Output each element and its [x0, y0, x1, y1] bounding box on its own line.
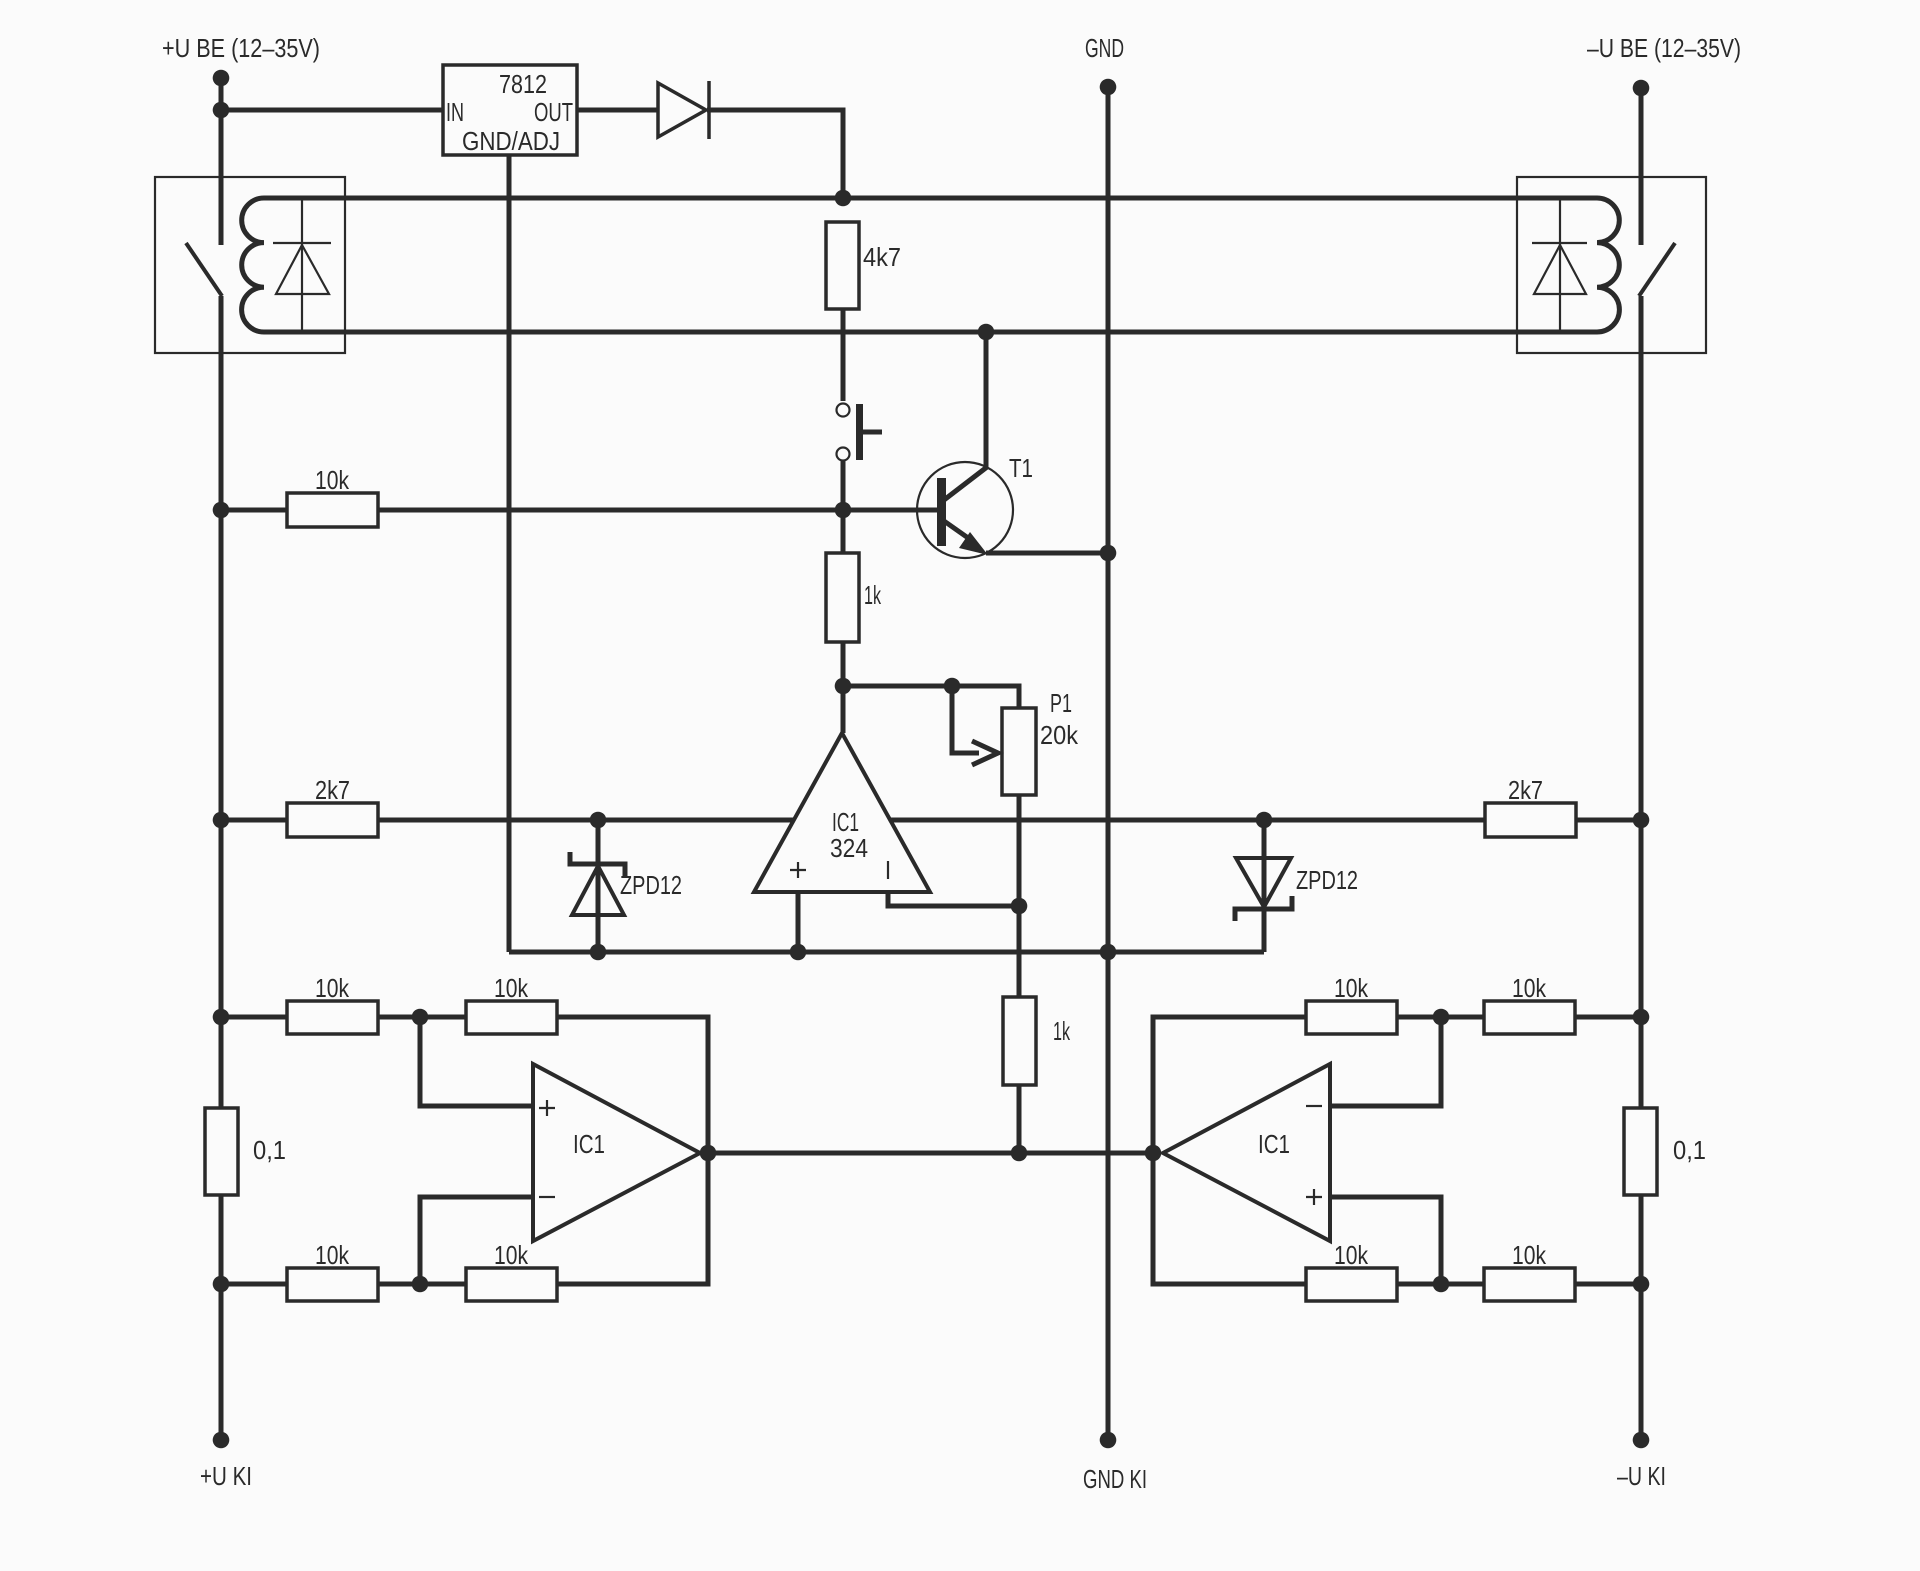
svg-text:10k: 10k — [494, 1240, 529, 1270]
op-amp U2 IC1 324 — [754, 733, 930, 892]
resistor 10k g — [1484, 1268, 1575, 1301]
wire regulator OUT — [577, 108, 658, 113]
node right rail row1 — [1633, 1009, 1650, 1026]
resistor 10k c — [287, 1268, 378, 1301]
node right opamp output — [1145, 1145, 1162, 1162]
node zener right top — [1256, 812, 1273, 829]
label 10k h — [1334, 1240, 1369, 1270]
svg-text:GND KI: GND KI — [1083, 1464, 1147, 1494]
label 10k f — [1334, 973, 1369, 1003]
wire 2k7 row across — [378, 818, 1485, 823]
svg-text:T1: T1 — [1009, 453, 1033, 483]
resistor 10k e — [1484, 1001, 1575, 1034]
node GND bus — [1100, 944, 1117, 961]
wire reference bus — [509, 950, 1264, 955]
svg-text:ZPD12: ZPD12 — [1296, 865, 1358, 895]
label 20k — [1040, 720, 1079, 750]
resistor 10k base — [287, 493, 378, 527]
wire GND vertical top — [1106, 87, 1111, 553]
label -U KI — [1617, 1461, 1666, 1491]
label 10k base — [315, 465, 350, 495]
svg-text:–U KI: –U KI — [1617, 1461, 1666, 1491]
node +U BE / IN junction — [213, 102, 230, 119]
node minus divider right — [1433, 1009, 1450, 1026]
label 2k7 right — [1508, 775, 1543, 805]
wire GND vertical bottom — [1106, 952, 1111, 1440]
node plus input bus — [790, 944, 807, 961]
label 10k b — [494, 973, 529, 1003]
svg-text:1k: 1k — [864, 580, 882, 610]
node 1k output — [1011, 1145, 1028, 1162]
wire 2k7 right to rail — [1576, 818, 1641, 823]
wire 10k d to feedback column lower — [557, 1153, 708, 1284]
label 10k a — [315, 973, 350, 1003]
capacitor 0,1 right — [1624, 1108, 1657, 1195]
node opamp apex — [835, 678, 852, 695]
wire left rail 2k7-row1 — [219, 820, 224, 1108]
node A (4k7 top) — [835, 190, 852, 207]
svg-text:IN: IN — [446, 97, 464, 127]
wire 10k f to feedback column right — [1153, 1017, 1306, 1153]
wire right rail below relay — [1639, 296, 1644, 1108]
transistor T1 — [917, 462, 1013, 558]
capacitor 0,1 left — [205, 1108, 238, 1195]
label ZPD12 right — [1296, 865, 1358, 895]
svg-text:0,1: 0,1 — [1673, 1135, 1706, 1165]
wire 1k lower top — [1017, 906, 1022, 997]
wire 4k7 bottom to button — [841, 309, 846, 401]
svg-text:–U BE (12–35V): –U BE (12–35V) — [1587, 33, 1741, 63]
label 1k lower — [1053, 1016, 1071, 1046]
label 2k7 left — [315, 775, 350, 805]
terminal GND KI — [1100, 1432, 1117, 1449]
wire GND vertical middle — [1106, 553, 1111, 952]
svg-text:10k: 10k — [1334, 1240, 1369, 1270]
wire left rail below relay — [219, 296, 224, 510]
node right rail row2 — [1633, 1276, 1650, 1293]
svg-text:GND: GND — [1085, 33, 1124, 63]
wire -U BE rail to relay contact — [1639, 88, 1644, 245]
label 0,1 right — [1673, 1135, 1706, 1165]
wire plus input right opamp — [1330, 1197, 1441, 1284]
label GND KI — [1083, 1464, 1147, 1494]
wire to P1 top — [952, 686, 1019, 708]
wire 10k a to b — [378, 1015, 466, 1020]
wire minus input to pot bottom — [888, 892, 1019, 906]
node plus divider left — [412, 1009, 429, 1026]
resistor 2k7 right — [1485, 803, 1576, 837]
label 10k c — [315, 1240, 350, 1270]
resistor 10k b — [466, 1001, 557, 1034]
node wiper — [944, 678, 961, 695]
potentiometer P1 — [1002, 708, 1036, 795]
label +U KI — [200, 1461, 252, 1491]
svg-text:10k: 10k — [315, 1240, 350, 1270]
node left rail 10k — [213, 502, 230, 519]
terminal -U KI — [1633, 1432, 1650, 1449]
resistor 2k7 left — [287, 803, 378, 837]
svg-text:10k: 10k — [315, 973, 350, 1003]
svg-text:20k: 20k — [1040, 720, 1079, 750]
resistor 4k7 — [826, 222, 859, 309]
regulator U1 7812 — [443, 65, 577, 156]
wire 10k b to feedback column — [557, 1017, 708, 1153]
wire 1k lower bottom — [1017, 1085, 1022, 1153]
node collector top — [978, 324, 995, 341]
node zener left bottom — [590, 944, 607, 961]
svg-text:10k: 10k — [1334, 973, 1369, 1003]
svg-text:IC1: IC1 — [1258, 1129, 1290, 1159]
wire minus input left opamp — [420, 1197, 533, 1284]
node zener left top — [590, 812, 607, 829]
wire rail to 10k — [221, 508, 287, 513]
wire +U BE rail to relay contact — [219, 78, 224, 245]
label ZPD12 left — [620, 870, 682, 900]
wire base node to 1k — [841, 510, 846, 553]
wire button bottom to base node — [841, 461, 846, 510]
wire to regulator IN — [221, 108, 443, 113]
relay REL2 diode — [1532, 198, 1587, 332]
wire rail to 10k a — [221, 1015, 287, 1020]
wire plus input left opamp — [420, 1017, 533, 1106]
wire 10k g to h — [1397, 1282, 1484, 1287]
wire rail to 2k7 — [221, 818, 287, 823]
pushbutton S1 — [837, 404, 883, 461]
potentiometer P1 wiper arrow — [952, 686, 998, 765]
relay REL1 switch blade — [186, 243, 222, 296]
wire rail to 10k g — [1575, 1282, 1641, 1287]
node left rail row1 — [213, 1009, 230, 1026]
svg-text:ZPD12: ZPD12 — [620, 870, 682, 900]
label 10k g — [1512, 1240, 1547, 1270]
resistor 10k h — [1306, 1268, 1397, 1301]
wire plus input down — [796, 892, 801, 952]
node minus/pot — [1011, 898, 1028, 915]
node left opamp output — [700, 1145, 717, 1162]
node right rail 2k7 — [1633, 812, 1650, 829]
label +U BE (12-35V) — [162, 33, 320, 63]
label P1 — [1050, 688, 1072, 718]
svg-text:P1: P1 — [1050, 688, 1072, 718]
wire bottom coil bus — [264, 330, 1597, 335]
resistor 10k a — [287, 1001, 378, 1034]
node base junction — [835, 502, 852, 519]
wire node to wiper node — [843, 684, 952, 689]
relay REL1 diode — [273, 198, 331, 332]
node emitter/GND — [1100, 545, 1117, 562]
zener ZPD12 right — [1235, 820, 1292, 952]
label -U BE (12-35V) — [1587, 33, 1741, 63]
label 10k e — [1512, 973, 1547, 1003]
wire left rail below cap — [219, 1195, 224, 1440]
wire GND/ADJ vertical — [507, 155, 512, 952]
svg-text:10k: 10k — [494, 973, 529, 1003]
wire top coil bus — [264, 196, 1597, 201]
op-amp U4 IC1 right — [1163, 1064, 1330, 1241]
relay REL1 coil — [242, 198, 264, 332]
svg-text:0,1: 0,1 — [253, 1135, 286, 1165]
wire D1 cathode to node A — [707, 110, 843, 198]
svg-text:GND/ADJ: GND/ADJ — [462, 126, 560, 156]
zener ZPD12 left — [570, 820, 625, 952]
node minus divider left — [412, 1276, 429, 1293]
svg-text:7812: 7812 — [499, 69, 547, 99]
relay REL2 box — [1517, 177, 1706, 353]
label 1k upper — [864, 580, 882, 610]
resistor 1k lower — [1003, 997, 1036, 1085]
wire opamp output apex — [841, 686, 846, 733]
svg-text:10k: 10k — [1512, 1240, 1547, 1270]
wire 10k h to feedback column right lower — [1153, 1153, 1306, 1284]
wire right rail below cap — [1639, 1195, 1644, 1440]
relay REL1 box — [155, 177, 345, 353]
svg-text:4k7: 4k7 — [863, 242, 901, 272]
wire 10k e to f — [1397, 1015, 1484, 1020]
label 10k d — [494, 1240, 529, 1270]
svg-text:2k7: 2k7 — [1508, 775, 1543, 805]
label T1 — [1009, 453, 1033, 483]
wire collector — [984, 332, 989, 468]
terminal +U BE — [213, 70, 230, 87]
svg-text:OUT: OUT — [534, 97, 573, 127]
wire pot bottom down — [1017, 795, 1022, 906]
resistor 1k upper — [826, 553, 859, 642]
wire minus input right opamp — [1330, 1017, 1441, 1106]
node left rail row2 — [213, 1276, 230, 1293]
relay REL2 switch blade — [1639, 243, 1675, 296]
label 4k7 — [863, 242, 901, 272]
op-amp U3 IC1 left — [533, 1064, 700, 1241]
wire 1k to opamp node — [841, 642, 846, 686]
node plus divider right — [1433, 1276, 1450, 1293]
terminal GND — [1100, 79, 1117, 96]
wire output row — [708, 1151, 1153, 1156]
resistor 10k d — [466, 1268, 557, 1301]
wire 10k c to d — [378, 1282, 466, 1287]
wire left rail 10k-2k7 — [219, 510, 224, 820]
wire emitter to GND line — [986, 551, 1108, 556]
svg-text:1k: 1k — [1053, 1016, 1071, 1046]
svg-text:+U KI: +U KI — [200, 1461, 252, 1491]
label 0,1 left — [253, 1135, 286, 1165]
svg-text:10k: 10k — [1512, 973, 1547, 1003]
svg-text:10k: 10k — [315, 465, 350, 495]
terminal -U BE — [1633, 80, 1650, 97]
label GND — [1085, 33, 1124, 63]
relay REL2 coil — [1597, 198, 1619, 332]
terminal +U KI — [213, 1432, 230, 1449]
svg-text:324: 324 — [830, 833, 868, 863]
diode D1 — [658, 81, 709, 139]
svg-text:2k7: 2k7 — [315, 775, 350, 805]
svg-text:+U BE (12–35V): +U BE (12–35V) — [162, 33, 320, 63]
resistor 10k f — [1306, 1001, 1397, 1034]
svg-text:IC1: IC1 — [573, 1129, 605, 1159]
node left rail 2k7 — [213, 812, 230, 829]
wire 10k to base — [378, 508, 937, 513]
wire rail to 10k c — [221, 1282, 287, 1287]
wire rail to 10k e — [1575, 1015, 1641, 1020]
